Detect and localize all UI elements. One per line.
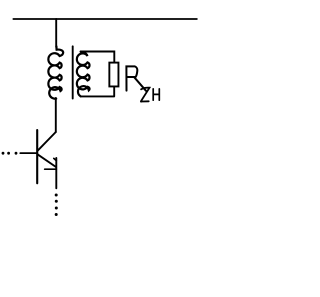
transformer T1 secondary winding — [77, 52, 90, 97]
transformer T1 core — [72, 46, 74, 98]
wire top supply bus — [13, 18, 197, 20]
transistor Q1 emitter stroke — [38, 154, 57, 167]
wire resistor R2H bottom to secondary — [81, 87, 115, 97]
transformer T1 primary winding — [48, 46, 63, 98]
transistor Q1 emitter arrowhead barb — [45, 168, 57, 170]
transistor Q1 emitter arrowhead hook — [54, 158, 57, 160]
wire secondary top to resistor R2H — [81, 52, 115, 63]
node emitter continuation dots — [55, 194, 58, 217]
wire drop from bus to primary — [55, 19, 57, 47]
wire base lead — [20, 152, 37, 154]
label R2H : letter R — [126, 66, 146, 90]
node base continuation dots — [2, 152, 18, 155]
transistor Q1 collector stroke — [38, 132, 56, 151]
label R2H : subscript 2 — [141, 88, 150, 102]
resistor R2H body — [109, 63, 118, 87]
wire collector lead from primary — [55, 98, 57, 132]
label R2H : subscript H — [153, 89, 159, 100]
wire emitter lead — [55, 158, 57, 188]
transistor Q1 base bar — [36, 130, 38, 183]
